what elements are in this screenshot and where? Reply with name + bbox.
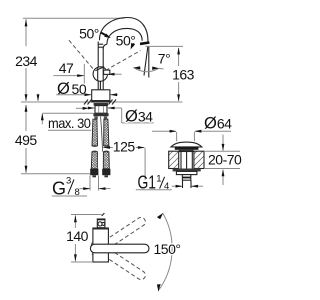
svg-text:495: 495	[15, 132, 38, 148]
svg-text:Ø50: Ø50	[57, 80, 87, 98]
svg-text:Ø34: Ø34	[125, 107, 153, 125]
svg-text:140: 140	[66, 228, 89, 244]
svg-text:3: 3	[66, 176, 71, 187]
svg-text:4: 4	[164, 181, 169, 192]
svg-text:50°: 50°	[79, 25, 99, 41]
svg-text:1: 1	[156, 173, 161, 184]
svg-text:234: 234	[15, 53, 38, 69]
svg-text:max. 30: max. 30	[48, 115, 91, 131]
svg-text:125: 125	[113, 138, 136, 154]
svg-text:47: 47	[59, 60, 74, 76]
svg-text:Ø64: Ø64	[204, 115, 232, 133]
svg-text:20-70: 20-70	[208, 151, 242, 167]
svg-text:163: 163	[172, 66, 195, 82]
svg-text:7°: 7°	[158, 51, 170, 67]
svg-text:150°: 150°	[154, 241, 181, 257]
